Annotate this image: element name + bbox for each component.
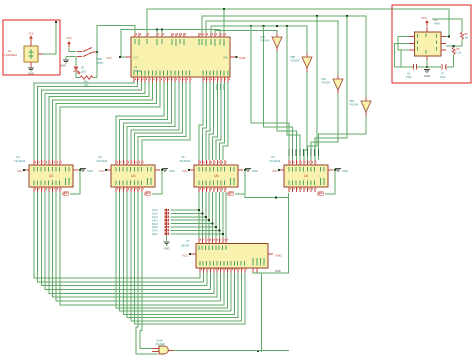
wire U3 to gate input 1: [136, 192, 158, 354]
wire data bus B0: [116, 82, 164, 160]
wire SJ1 to bus: [171, 209, 201, 211]
wire R3 to node: [93, 77, 97, 79]
solder jumper SJ2: [152, 212, 169, 215]
wire data bus B4: [131, 82, 179, 160]
svg-text:X1: X1: [8, 49, 12, 53]
svg-text:U2: U2: [49, 174, 53, 178]
svg-text:U5D: U5D: [349, 99, 354, 103]
junction rail x162: [161, 29, 163, 33]
junction bypass node C: [316, 15, 318, 17]
svg-text:GND: GND: [424, 74, 430, 78]
ground for jumper column: [164, 236, 170, 251]
wire data bus A4: [49, 82, 149, 160]
svg-text:U5C: U5C: [321, 77, 326, 81]
wire VCC to SW5: [69, 48, 76, 52]
wire U1 P3.5 to inverter U5B input: [211, 26, 307, 54]
wire address bus C3: [209, 82, 214, 160]
svg-text:GND: GND: [223, 57, 229, 60]
wire data bus B1: [120, 82, 168, 160]
svg-text:VCC: VCC: [272, 169, 278, 173]
gnd rail in oscillator box: [395, 66, 454, 68]
svg-text:GND: GND: [239, 56, 247, 60]
solder jumper SJ8: [152, 233, 169, 236]
wire bypass E down to U4: [287, 26, 300, 160]
wire VCC rail: [121, 30, 220, 57]
wire address bus C0: [199, 82, 203, 160]
ground for X1: [28, 66, 34, 76]
wire from X1 to node CLK: [43, 22, 56, 54]
octal buffer U3 74LS244: [96, 155, 175, 196]
svg-text:GND: GND: [275, 269, 281, 273]
wire bus E5 U3 to U7: [135, 192, 245, 324]
wire data bus B3: [127, 82, 175, 160]
octal buffer U4 74LS244: [269, 155, 348, 196]
wire data bus A0: [34, 82, 134, 160]
wire top rail to oscillator box: [147, 9, 449, 37]
svg-text:74LS04: 74LS04: [349, 103, 359, 107]
wire bus E1 U3 to U7: [120, 192, 231, 311]
net-class highlight box (crystal section): [3, 20, 60, 75]
wire U9 left pin 1 loop: [398, 37, 409, 51]
resistor R9 2.2k: [452, 47, 462, 55]
ground for U9: [424, 60, 430, 78]
wire bypass D down to U4: [315, 16, 347, 160]
solder jumper SJ6: [152, 226, 169, 229]
wire address A7 U6 to U7: [222, 192, 224, 238]
svg-text:VCC: VCC: [106, 56, 112, 60]
svg-text:74LS244: 74LS244: [96, 159, 108, 163]
svg-text:U7: U7: [186, 239, 190, 243]
svg-text:74LS04: 74LS04: [290, 59, 300, 63]
wire gate output rise: [261, 273, 263, 352]
wire address A2 U6 to U7: [205, 192, 207, 238]
wire gate output to U4 net: [174, 350, 289, 352]
capacitor C7 47pF: [440, 64, 447, 79]
LED D1: [74, 57, 87, 75]
microcontroller U1 89S52: [131, 33, 230, 90]
svg-text:VCC: VCC: [182, 169, 188, 173]
wire bus D2 U2 to U7: [41, 192, 207, 286]
wire address A0 U6 to U7: [198, 192, 200, 238]
wire bus D7 U2 to U7: [60, 192, 224, 305]
wire data bus B2: [123, 82, 171, 160]
wire address A8 U6 to U7: [225, 192, 227, 238]
junction bypass node A: [250, 25, 252, 27]
svg-text:74LS244: 74LS244: [14, 159, 26, 163]
wire SJ7 to bus: [171, 229, 221, 231]
gate U10A 74LS08: [152, 339, 174, 355]
wire bus D1 U2 to U7: [38, 192, 204, 282]
svg-text:U4: U4: [304, 174, 308, 178]
crystal X1 1.8432MHz: [4, 42, 38, 66]
wire SJ6 to bus: [171, 226, 218, 228]
wire R9 bottom to gnd rail: [453, 55, 455, 68]
wire bus E2 U3 to U7: [123, 192, 234, 314]
wire U3 to gate input 2: [140, 192, 157, 349]
svg-text:U5B: U5B: [290, 55, 295, 59]
svg-text:GND: GND: [275, 254, 283, 258]
wire U5D output down to U4: [319, 116, 366, 161]
wire data bus B7: [142, 82, 190, 160]
wire clk input to U9 right pin: [446, 36, 450, 38]
solder jumper SJ4: [152, 219, 169, 222]
wire SJ3 to bus: [171, 216, 207, 218]
svg-text:GND: GND: [169, 170, 175, 173]
wire U9 left pin 3 down: [401, 50, 409, 67]
wire U9 left pin 2 to gnd rail: [395, 44, 410, 68]
wire data bus A1: [38, 82, 138, 160]
wire R8 bottom to U9 pin: [446, 40, 462, 48]
inverter U5D: [349, 98, 371, 116]
wire read strobe U6 to U4: [245, 194, 289, 199]
wire bypass B down to U4: [264, 26, 293, 160]
wire SJ2 to bus: [171, 212, 204, 214]
wire U1 P3.6 to inverter U5C input: [206, 21, 338, 76]
wire bus D3 U2 to U7: [45, 192, 210, 290]
solder jumper SJ5: [152, 222, 169, 225]
ground for SW5: [60, 57, 69, 68]
wire bypass A down to U4: [251, 26, 289, 160]
svg-text:47pF: 47pF: [440, 76, 446, 79]
VCC symbol for X1: [28, 32, 34, 43]
svg-text:74LS08: 74LS08: [155, 342, 165, 346]
VCC symbol near SW5: [66, 36, 72, 48]
wire U1 pin21 to rail: [223, 9, 225, 33]
junction bypass node B: [263, 25, 289, 27]
wire bus D4 U2 to U7: [49, 192, 214, 293]
wire bus D5 U2 to U7: [53, 192, 218, 297]
svg-text:VCC: VCC: [182, 254, 189, 258]
wire address A4 U6 to U7: [212, 192, 214, 238]
junction bypass node D: [346, 15, 348, 17]
solder jumper SJ3: [152, 216, 169, 219]
net-class highlight box (oscillator section): [392, 5, 471, 83]
wire data bus A2: [41, 82, 141, 160]
wire U5A output down to U4: [277, 51, 296, 160]
wire SJ8 to bus: [171, 233, 224, 235]
wire SJ5 to bus: [171, 223, 214, 225]
svg-text:VCC: VCC: [421, 16, 427, 20]
svg-text:GND: GND: [164, 247, 170, 251]
wire data bus A7: [60, 82, 160, 160]
svg-text:S8+5: S8+5: [152, 233, 158, 236]
svg-text:VCC: VCC: [17, 169, 23, 173]
svg-text:74LS04: 74LS04: [321, 81, 331, 85]
svg-text:74LS04: 74LS04: [260, 39, 270, 43]
U7 ground pins to gnd net: [253, 198, 289, 274]
svg-text:28C64: 28C64: [181, 244, 190, 248]
inverter U5C: [321, 76, 343, 94]
wire address bus C4: [213, 82, 218, 160]
svg-text:U6: U6: [214, 174, 218, 178]
svg-text:VCC: VCC: [99, 169, 105, 173]
VCC symbol for U9: [421, 16, 429, 27]
wire node up to U1 pin 9: [97, 26, 135, 52]
solder jumper SJ7: [152, 229, 169, 232]
wire data bus A5: [53, 82, 153, 160]
wire address A6 U6 to U7: [218, 192, 220, 238]
wire bus D6 U2 to U7: [56, 192, 221, 301]
svg-text:15pF: 15pF: [406, 76, 412, 79]
wire data bus A6: [56, 82, 156, 160]
inverter U5A: [260, 34, 282, 52]
svg-text:GND: GND: [28, 72, 34, 76]
wire address bus C2: [206, 82, 210, 160]
wire address A5 U6 to U7: [215, 192, 217, 238]
switch SW5 SPDT: [66, 48, 104, 66]
wire node to resistor loop: [96, 52, 98, 78]
junction U9 gnd rail: [426, 66, 428, 68]
net labels above U4 pins: [288, 149, 319, 156]
junction node SW common: [96, 51, 98, 53]
svg-text:74LS244: 74LS244: [179, 159, 191, 163]
wire address bus C5: [216, 82, 221, 160]
wire data bus B6: [138, 82, 186, 160]
svg-text:VCC: VCC: [28, 32, 34, 36]
wire U1 P3.4 to inverter U5A input: [215, 31, 277, 35]
wire U5B output down to U4: [304, 72, 307, 161]
wire address bus C7: [223, 82, 228, 160]
wire address bus C6: [219, 82, 224, 160]
wire data bus B5: [135, 82, 183, 160]
solder jumper SJ1: [152, 209, 169, 212]
svg-text:U1: U1: [134, 65, 138, 69]
wire U4 pin1 to strobe net: [288, 193, 290, 198]
U1 VCC pin: [106, 56, 131, 60]
svg-text:LED: LED: [81, 70, 86, 74]
svg-text:VCC: VCC: [133, 57, 138, 60]
wire data bus A3: [45, 82, 145, 160]
EEPROM U7 28C64: [181, 238, 283, 273]
resistor R3 221: [80, 76, 93, 87]
svg-text:4060: 4060: [434, 22, 440, 26]
pin 2 of X1: [38, 53, 43, 55]
wire R8 top to VCC rail: [432, 19, 462, 32]
capacitor C6 15pF: [406, 64, 417, 79]
oscillator IC U9: [409, 18, 446, 60]
wire bus E0 U3 to U7: [116, 192, 228, 308]
junction gate output: [257, 350, 259, 352]
svg-text:2.2k: 2.2k: [457, 52, 462, 55]
wire bypass C down to U4: [308, 16, 318, 160]
octal buffer U2 74LS244: [14, 155, 93, 196]
jumper common rail: [166, 209, 168, 236]
wire address bus C1: [202, 82, 206, 160]
wire bus E4 U3 to U7: [131, 192, 242, 321]
wire address A3 U6 to U7: [208, 192, 210, 238]
svg-text:1M: 1M: [465, 37, 468, 40]
svg-text:1.8432MHz: 1.8432MHz: [4, 53, 18, 57]
svg-text:GND: GND: [342, 170, 348, 173]
wire bus E3 U3 to U7: [127, 192, 238, 318]
wire address A1 U6 to U7: [201, 192, 203, 238]
svg-text:GND: GND: [60, 64, 66, 68]
wire U5C output down to U4: [311, 94, 338, 161]
svg-text:VCC: VCC: [66, 36, 72, 40]
svg-text:GND: GND: [252, 170, 258, 173]
junction at node CLK: [55, 21, 57, 23]
octal buffer U6 74LS244: [179, 155, 258, 196]
svg-text:GND: GND: [87, 170, 93, 173]
junction rail x157: [156, 29, 158, 33]
svg-text:U5A: U5A: [260, 35, 265, 39]
wire LED to R3: [76, 71, 80, 78]
wire SJ4 to bus: [171, 219, 211, 221]
inverter U5B: [290, 54, 312, 72]
U1 GND pin: [230, 56, 247, 60]
svg-text:U3: U3: [131, 174, 135, 178]
junction top rail pin 21: [223, 8, 225, 10]
resistor R8 1M: [461, 32, 469, 40]
wire U1 P3.7 to inverter U5D input: [202, 16, 366, 98]
wire bus D0 U2 to U7: [34, 192, 200, 278]
svg-text:74LS244: 74LS244: [269, 159, 281, 163]
